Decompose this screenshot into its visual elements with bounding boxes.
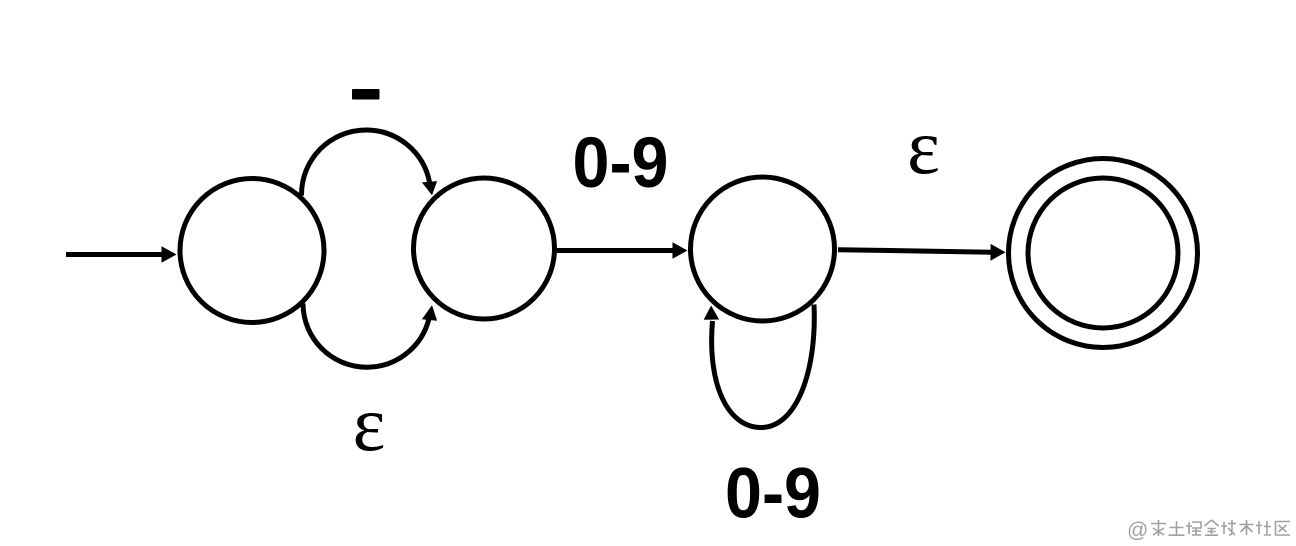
svg-text:@: @ <box>1127 519 1148 542</box>
svg-text:ε: ε <box>907 103 940 190</box>
svg-text:0-9: 0-9 <box>725 455 821 534</box>
svg-text:ε: ε <box>353 380 386 467</box>
svg-text:0-9: 0-9 <box>573 124 669 203</box>
